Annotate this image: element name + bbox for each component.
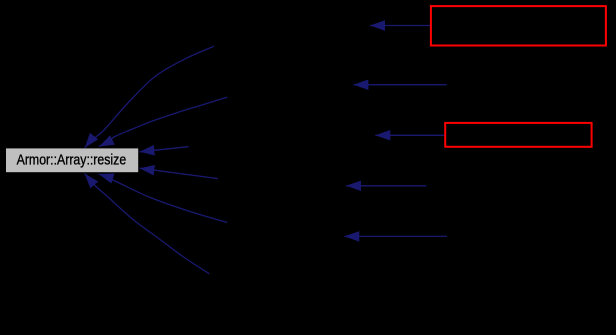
svg-text:Armor::Array::resize: Armor::Array::resize	[17, 152, 127, 169]
